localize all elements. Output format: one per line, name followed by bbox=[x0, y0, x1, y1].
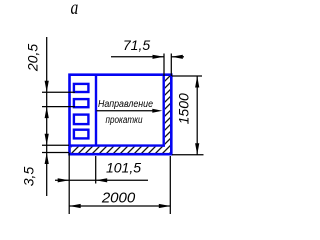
dim 3,5 arrow up bbox=[45, 153, 49, 165]
ext line 71,5 b bbox=[170, 54, 172, 77]
strip border vertical bbox=[162, 75, 164, 147]
hatch bottom strip bbox=[71, 147, 170, 153]
slot 3 bbox=[74, 115, 89, 125]
svg-text:2000: 2000 bbox=[101, 189, 136, 206]
strip border horizontal bbox=[70, 144, 165, 146]
dim 71,5 arrow left-pointing bbox=[171, 55, 183, 59]
slot 1 bbox=[74, 84, 89, 92]
dim vertical line left bbox=[46, 37, 48, 196]
dim 1500 arrow up bbox=[195, 76, 199, 88]
ext line 71,5 a bbox=[163, 54, 165, 77]
svg-text:Направление: Направление bbox=[98, 99, 153, 110]
ext line 101,5 mid bbox=[95, 156, 97, 184]
ext line 1500 bottom bbox=[172, 154, 204, 156]
ext line 2000 left bbox=[68, 153, 70, 214]
direction arrow bbox=[97, 110, 158, 112]
svg-text:20,5: 20,5 bbox=[25, 44, 41, 72]
dim 71,5 arrow right-pointing bbox=[153, 55, 165, 59]
dim 2000 line bbox=[69, 205, 170, 207]
ext line plate bottom bbox=[42, 152, 69, 154]
svg-text:3,5: 3,5 bbox=[21, 167, 37, 187]
ext line slot1 bottom bbox=[42, 91, 75, 93]
dim 3,5 arrow down bbox=[45, 134, 49, 146]
svg-text:1500: 1500 bbox=[175, 93, 191, 124]
ext line 1500 top bbox=[172, 75, 202, 77]
svg-text:а: а bbox=[71, 0, 79, 18]
dim 101,5 line bbox=[55, 179, 148, 181]
dim 20,5 arrow up bbox=[45, 107, 49, 119]
dim 2000 arrow right bbox=[159, 204, 171, 208]
svg-text:101,5: 101,5 bbox=[106, 160, 141, 176]
dim 2000 arrow left bbox=[69, 204, 81, 208]
ext line 2000 right bbox=[169, 156, 171, 214]
dim 20,5 arrow down bbox=[45, 81, 49, 93]
svg-text:прокатки: прокатки bbox=[106, 115, 143, 126]
dim 1500 line bbox=[196, 76, 198, 155]
dim 71,5 line left bbox=[111, 56, 164, 58]
ext line slot2 bottom bbox=[42, 106, 75, 108]
dim 101,5 arrow left-pointing bbox=[96, 178, 108, 182]
plate outline bbox=[70, 75, 172, 155]
ext line strip top bbox=[42, 144, 69, 146]
dim 71,5 line right bbox=[171, 56, 184, 58]
slot 4 bbox=[74, 130, 89, 139]
hatch right strip bbox=[165, 76, 170, 153]
dim 101,5 arrow right-pointing bbox=[58, 178, 69, 182]
dim 1500 arrow down bbox=[195, 143, 199, 155]
divider line bbox=[95, 75, 97, 146]
svg-text:71,5: 71,5 bbox=[123, 37, 150, 53]
slot 2 bbox=[74, 99, 89, 107]
